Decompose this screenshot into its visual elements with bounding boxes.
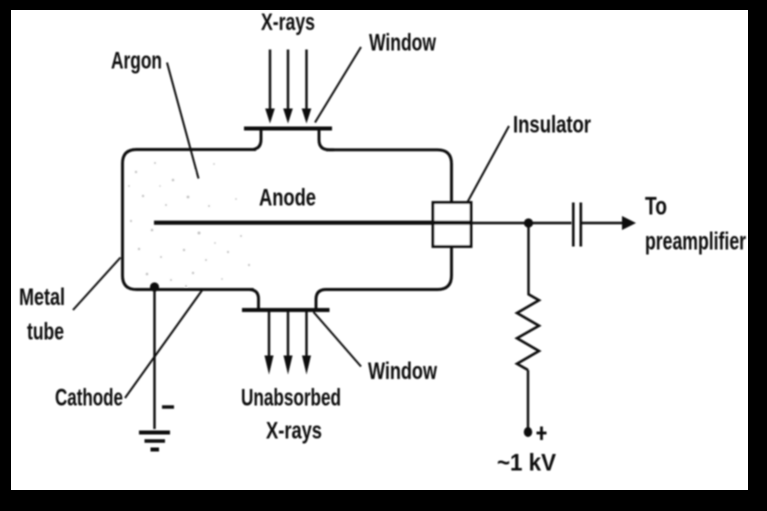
cathode wire down to ground bbox=[153, 287, 155, 429]
metal tube bottom-right wall segment and lower right wall bbox=[336, 228, 452, 290]
svg-text:X-rays: X-rays bbox=[261, 9, 315, 36]
capacitor C right plate bbox=[579, 203, 582, 247]
svg-text:preamplifier: preamplifier bbox=[645, 228, 746, 256]
top window right flange curve bbox=[319, 130, 334, 150]
unabsorbed X-ray arrow 3 bbox=[302, 311, 311, 375]
capacitor C left plate bbox=[572, 203, 575, 247]
argon gas stipple texture bbox=[128, 162, 250, 287]
unabsorbed X-ray arrow 2 bbox=[284, 311, 293, 375]
anode wire bbox=[154, 221, 471, 225]
minus sign at cathode wire bbox=[162, 405, 174, 408]
svg-text:Insulator: Insulator bbox=[513, 112, 591, 139]
leader line Argon bbox=[167, 63, 199, 179]
bottom window left flange curve bbox=[249, 290, 259, 309]
top window bar bbox=[244, 127, 332, 131]
wire from capacitor to output arrow bbox=[582, 222, 624, 224]
output arrowhead to preamplifier bbox=[622, 216, 636, 230]
metal tube top-right wall segment and right wall bbox=[326, 150, 452, 222]
leader line Cathode bbox=[125, 289, 203, 398]
svg-text:tube: tube bbox=[27, 319, 64, 346]
X-ray arrow 1 bbox=[265, 50, 275, 124]
unabsorbed X-ray arrow 1 bbox=[265, 311, 274, 375]
ground symbol bbox=[139, 433, 170, 450]
X-ray arrow 2 bbox=[283, 50, 293, 124]
svg-text:Unabsorbed: Unabsorbed bbox=[241, 385, 341, 412]
svg-text:Window: Window bbox=[368, 358, 437, 385]
X-ray arrow 3 bbox=[302, 50, 312, 124]
svg-text:Anode: Anode bbox=[259, 185, 316, 212]
svg-text:To: To bbox=[645, 193, 667, 221]
HV supply node dot bbox=[524, 427, 532, 437]
node junction on anode output bbox=[524, 218, 533, 227]
cathode junction dot on tube wall bbox=[150, 282, 159, 291]
leader line Insulator bbox=[468, 126, 510, 202]
bottom window bar bbox=[242, 308, 330, 312]
svg-text:~1 kV: ~1 kV bbox=[497, 450, 556, 477]
svg-text:Metal: Metal bbox=[19, 284, 65, 311]
wire from junction down to resistor bbox=[527, 223, 529, 295]
metal tube body (left wall, top-left wall segment, bottom-left wall segment) bbox=[123, 150, 257, 290]
plus sign at HV node bbox=[537, 427, 547, 441]
svg-text:Argon: Argon bbox=[111, 48, 162, 75]
insulator block bbox=[433, 203, 471, 247]
leader line Metal tube bbox=[73, 258, 121, 311]
bottom window right flange curve bbox=[316, 290, 338, 309]
wire from resistor down to HV supply node bbox=[527, 370, 529, 430]
top window left flange curve bbox=[251, 130, 261, 150]
leader line top Window bbox=[315, 47, 361, 123]
svg-text:Window: Window bbox=[369, 30, 436, 57]
svg-text:X-rays: X-rays bbox=[266, 418, 322, 445]
resistor R (HV load) bbox=[517, 294, 539, 370]
leader line bottom Window bbox=[314, 312, 362, 367]
svg-text:Cathode: Cathode bbox=[55, 385, 123, 412]
wire from insulator to capacitor bbox=[470, 222, 572, 224]
